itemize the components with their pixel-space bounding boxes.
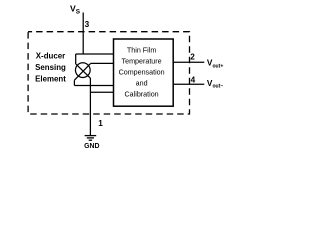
svg-text:Thin Film: Thin Film (127, 47, 156, 55)
svg-text:Sensing: Sensing (35, 63, 66, 72)
svg-text:and: and (136, 79, 148, 87)
svg-text:Element: Element (35, 75, 66, 84)
svg-text:Calibration: Calibration (125, 90, 159, 98)
svg-text:Temperature: Temperature (122, 58, 162, 66)
svg-text:GND: GND (84, 143, 99, 150)
svg-text:2: 2 (190, 53, 195, 62)
svg-text:1: 1 (98, 119, 103, 128)
svg-text:4: 4 (191, 75, 196, 84)
svg-text:Compensation: Compensation (119, 69, 165, 77)
svg-text:X-ducer: X-ducer (36, 52, 65, 61)
svg-text:3: 3 (85, 20, 90, 29)
